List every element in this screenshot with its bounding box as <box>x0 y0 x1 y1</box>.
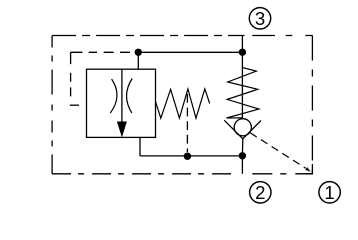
port 2 line (node D down to envelope) <box>241 156 243 174</box>
junction node D <box>239 152 246 159</box>
port label 2 circle <box>250 182 271 203</box>
flow centerline in compensator <box>121 69 123 122</box>
check valve spring (vertical zigzag) <box>227 68 259 119</box>
valve envelope boundary (chain line rectangle) <box>52 36 312 174</box>
junction node C <box>184 153 191 160</box>
pilot sense line (vertical dashed under spring) <box>186 94 188 152</box>
junction node B <box>239 49 246 56</box>
port label 3 circle <box>249 8 270 29</box>
check valve seat (V) <box>224 120 261 139</box>
wire: seat to node D <box>241 139 243 156</box>
restrictor arc right <box>127 79 133 114</box>
port 3 line (node B up to envelope) <box>241 36 243 53</box>
pilot line from node A to compensator left side (dashed) <box>70 52 134 105</box>
flow direction arrow (filled, pointing down) <box>117 122 127 138</box>
port label 1 circle <box>319 182 340 203</box>
main spring (horizontal zigzag on compensator right side) <box>156 89 210 118</box>
wire: compensator bottom stub <box>139 137 141 156</box>
restrictor arc left <box>110 79 117 113</box>
drain pilot line to port 1 (dashed diagonal with arrow) <box>250 133 305 168</box>
check valve ball <box>234 119 251 136</box>
drain arrowhead <box>305 167 311 172</box>
compensator body box <box>87 69 156 137</box>
svg-text:3: 3 <box>255 8 265 29</box>
wire: top horizontal from node A to node B <box>138 51 242 53</box>
wire: bottom horizontal from compensator to node D <box>140 155 242 157</box>
wire: node B down to check valve <box>241 52 243 119</box>
svg-text:1: 1 <box>324 182 334 203</box>
junction node A <box>135 49 142 56</box>
svg-text:2: 2 <box>255 182 265 203</box>
wire: compensator top stub <box>137 52 139 69</box>
